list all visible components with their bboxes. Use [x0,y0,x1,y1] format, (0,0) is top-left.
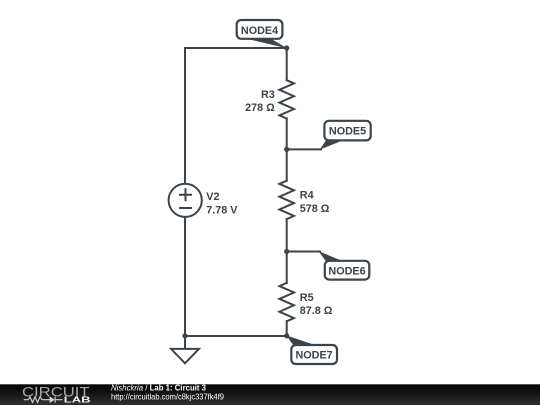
voltage source V2 circle [169,184,202,217]
wire left vertical upper [184,48,186,184]
svg-text:NODE5: NODE5 [329,126,366,138]
svg-text:NODE4: NODE4 [241,25,278,37]
wire left vertical lower [184,217,186,336]
svg-text:LAB: LAB [64,396,91,405]
wire R3 to node5 [286,119,288,150]
V2 plus sign [180,189,191,200]
NODE6 flag [325,261,370,280]
wire node5 to R4 [286,149,288,180]
logo icon diode triangle [50,396,55,403]
NODE5 flag [324,121,370,141]
wire node6 to R5 [286,252,288,283]
NODE7 flag [291,345,337,364]
wire node5 leader stub [287,148,321,150]
wire R5 to node7 [286,321,288,336]
svg-text:R4: R4 [300,190,314,202]
wire right vertical segment node4 to R3 [286,48,288,80]
NODE7 callout tail [286,335,316,345]
wire bottom horizontal [185,335,287,337]
ground triangle [171,349,199,363]
svg-text:NODE6: NODE6 [328,265,365,277]
wire top horizontal [185,47,287,49]
logo icon wire with resistor and diode [24,397,63,403]
svg-text:NODE7: NODE7 [295,350,332,362]
svg-text:87.8 Ω: 87.8 Ω [300,305,333,317]
svg-text:R5: R5 [300,292,314,304]
footer bar [0,384,540,405]
svg-text:R3: R3 [261,89,275,101]
svg-text:V2: V2 [206,191,219,203]
svg-text:http://circuitlab.com/c8kjc337: http://circuitlab.com/c8kjc337fk4f9 [111,391,224,401]
wire node6 leader stub [287,251,320,253]
svg-text:578 Ω: 578 Ω [300,203,330,215]
wire R4 to node6 [286,219,288,251]
svg-text:7.78 V: 7.78 V [206,204,238,216]
ground junction dot [182,333,187,338]
resistor R3 [279,80,294,118]
node A junction dot (NODE4) [284,45,289,50]
V2 minus sign [180,207,191,209]
resistor R4 [279,181,294,219]
NODE4 callout tail [247,39,287,49]
NODE6 callout tail [319,251,343,261]
node junction dot (NODE5) [284,147,289,152]
NODE4 flag [237,20,283,39]
svg-text:278 Ω: 278 Ω [245,102,275,114]
node junction dot (NODE7) [284,333,289,338]
node junction dot (NODE6) [284,249,289,254]
ground stub [184,336,186,349]
NODE5 callout tail [320,141,343,150]
resistor R5 [279,283,294,321]
